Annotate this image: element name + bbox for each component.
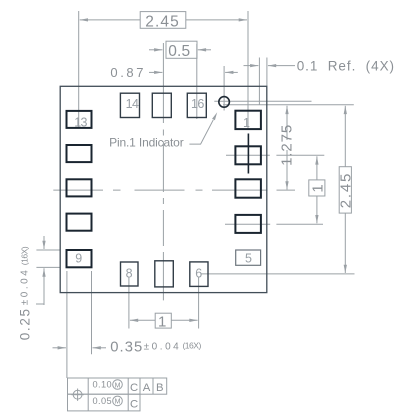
svg-text:M: M bbox=[115, 382, 121, 389]
svg-text:2.45: 2.45 bbox=[145, 13, 180, 30]
svg-text:0.35: 0.35 bbox=[110, 340, 143, 356]
svg-text:1.275: 1.275 bbox=[278, 124, 295, 166]
svg-text:0.87: 0.87 bbox=[110, 65, 146, 80]
svg-text:0.10: 0.10 bbox=[93, 379, 112, 389]
svg-text:±0.04: ±0.04 bbox=[144, 342, 182, 353]
svg-text:Pin.1 Indicator: Pin.1 Indicator bbox=[109, 136, 184, 150]
svg-text:±0.04: ±0.04 bbox=[19, 268, 30, 306]
svg-text:(16X): (16X) bbox=[19, 246, 29, 265]
svg-text:2.45: 2.45 bbox=[338, 172, 355, 208]
svg-text:A: A bbox=[143, 382, 151, 394]
svg-text:9: 9 bbox=[75, 251, 82, 265]
svg-text:C: C bbox=[130, 382, 138, 394]
svg-text:0.25: 0.25 bbox=[17, 307, 32, 340]
svg-text:B: B bbox=[156, 382, 164, 394]
svg-text:8: 8 bbox=[126, 266, 133, 280]
svg-text:(16X): (16X) bbox=[183, 341, 202, 351]
svg-text:0.5: 0.5 bbox=[168, 43, 190, 60]
svg-text:1: 1 bbox=[243, 116, 250, 130]
svg-text:5: 5 bbox=[245, 252, 252, 266]
svg-text:6: 6 bbox=[195, 267, 202, 281]
svg-text:M: M bbox=[115, 399, 121, 406]
svg-text:1: 1 bbox=[310, 183, 327, 193]
svg-text:0.05: 0.05 bbox=[93, 396, 112, 406]
svg-text:C: C bbox=[130, 399, 138, 411]
svg-text:13: 13 bbox=[74, 116, 87, 130]
svg-text:0.1 Ref. (4X): 0.1 Ref. (4X) bbox=[297, 59, 395, 74]
svg-text:16: 16 bbox=[191, 97, 204, 111]
svg-text:14: 14 bbox=[126, 97, 139, 111]
svg-text:1: 1 bbox=[158, 313, 168, 330]
